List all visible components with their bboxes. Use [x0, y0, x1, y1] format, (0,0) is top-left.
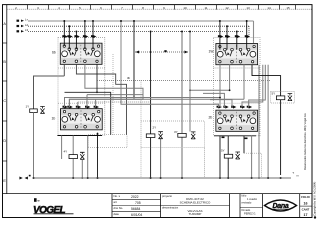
svg-text:revisado: revisado	[242, 200, 252, 204]
wire tag below K4 a	[222, 137, 225, 139]
mesh h10 dotted	[78, 101, 151, 103]
svg-text:1 cuadro: 1 cuadro	[247, 197, 258, 201]
connector pins above K4	[217, 105, 253, 108]
long wire from L1 at x140	[133, 21, 135, 98]
title block	[3, 194, 313, 218]
svg-text:A: A	[3, 22, 6, 26]
wire K3 t3 down to bus	[87, 136, 89, 179]
mesh h5 dark to bottom bus	[65, 92, 111, 134]
relay block K3 (mid-left)	[61, 109, 103, 130]
svg-text:E: E	[3, 179, 6, 183]
svg-text:TURUMP: TURUMP	[189, 212, 202, 216]
wire K2 t2 down	[229, 65, 231, 91]
stub to K3 row	[95, 99, 97, 107]
relay block K2 (top-right)	[216, 44, 258, 65]
wire K1 t3 route	[69, 64, 143, 107]
wire K4 t2 down through valve Y4	[227, 136, 229, 178]
svg-text:12: 12	[225, 6, 229, 10]
right side gray riser a	[242, 65, 263, 107]
svg-text:date: date	[114, 212, 120, 216]
wire K2 t3 down	[243, 65, 245, 100]
valve Y3 coil	[178, 133, 186, 137]
svg-text:56684: 56684	[131, 207, 141, 211]
valve Y2 symbol	[158, 132, 163, 139]
mesh h7 long gray	[65, 98, 221, 108]
svg-text:2Y: 2Y	[153, 126, 157, 130]
valve Y1 coil	[30, 109, 38, 113]
svg-text:SCHEMA ELECTRICO: SCHEMA ELECTRICO	[180, 201, 211, 205]
bus L1 (+24V)	[28, 20, 254, 22]
title block project field	[162, 194, 211, 216]
relay block K1 (top-left)	[60, 43, 102, 64]
feed wire K1 pin3 from L3	[75, 32, 77, 50]
left band row ticks	[3, 43, 7, 161]
svg-text:2b: 2b	[209, 116, 213, 120]
feed wire K1 pin4 from L1	[84, 21, 86, 49]
feed wire K2 pin2 from L2	[226, 26, 228, 49]
svg-text:FOLIO: FOLIO	[301, 195, 310, 199]
logo Dana lens	[265, 200, 297, 211]
short feeds to K4 row	[203, 93, 224, 107]
title block approval fields	[242, 194, 258, 216]
dotted corner near Y4	[244, 153, 262, 178]
svg-text:5Y: 5Y	[272, 92, 276, 96]
svg-text:firmado: firmado	[242, 208, 251, 212]
bottom return bus	[34, 177, 292, 179]
top ruler ticks	[28, 5, 296, 10]
folio number cell	[301, 195, 310, 217]
svg-text:m: m	[297, 175, 299, 178]
svg-text:Copyright by W.V. AG (2004): Copyright by W.V. AG (2004)	[312, 182, 316, 216]
bus L1 label	[17, 18, 29, 22]
wire tag below K4 b	[245, 138, 248, 140]
bus L2 end turn down	[248, 26, 250, 36]
svg-text:14: 14	[267, 6, 271, 10]
svg-text:B: B	[3, 60, 6, 64]
svg-text:1b: 1b	[52, 117, 56, 121]
mesh h6b	[87, 94, 143, 96]
svg-text:4Y: 4Y	[64, 150, 68, 154]
svg-text:3b: 3b	[127, 76, 131, 80]
bus L2 label	[17, 23, 29, 27]
bottom bus label wp	[19, 177, 22, 180]
mesh h9	[69, 99, 244, 107]
dotted enclosure around K1	[58, 38, 105, 136]
feed wire K1 pin2 from L2	[68, 26, 70, 49]
wire K1 t2 route	[76, 64, 126, 134]
wire K3 t2 down through valve Y6	[72, 136, 74, 179]
wire K1 t1 down to mesh	[63, 64, 65, 76]
dotted drop from enclosure	[203, 148, 205, 178]
wire K4 t1 dark down to bus	[219, 136, 221, 178]
junction dots on bottom bus	[33, 177, 282, 179]
svg-text:drw No.: drw No.	[114, 206, 124, 210]
feed wire K2 pin1 from L1	[219, 21, 221, 50]
mesh h8 to valve Y3	[190, 89, 230, 91]
logo VOGEL	[33, 198, 74, 216]
svg-text:705: 705	[135, 201, 141, 205]
dashed module outline below K3	[88, 135, 127, 148]
inner frame left band line	[6, 5, 8, 194]
dotted enclosure around Y5	[271, 92, 295, 104]
dotted enclosure around Y2 Y3	[141, 121, 204, 148]
svg-text:5Y: 5Y	[221, 149, 225, 153]
bus L1 end turn down	[253, 21, 255, 43]
svg-text:6/01/04: 6/01/04	[131, 213, 142, 217]
bar under K4	[214, 135, 256, 137]
svg-text:6b: 6b	[52, 51, 56, 55]
valve Y5 coil	[276, 96, 284, 100]
dotted enclosure around K4	[214, 102, 260, 104]
wire K3 t1 down to bus	[61, 136, 63, 160]
svg-text:Reservados todos los derechos.: Reservados todos los derechos. Willy Vog…	[303, 113, 307, 170]
right side gray riser c to bottom bus	[267, 65, 269, 178]
valve Y6 coil	[69, 155, 77, 159]
valve Y2 coil	[146, 134, 155, 138]
relay block K4 (mid-right)	[216, 110, 258, 131]
svg-text:PEREZ G.: PEREZ G.	[244, 212, 256, 216]
bus L2 (dotted)	[28, 25, 249, 27]
wire K1 t4 dark down	[96, 64, 98, 92]
valve Y4 symbol	[235, 152, 240, 159]
right side gray riser d to bottom bus	[258, 65, 260, 178]
wire K4 t3 gray down to bus	[251, 136, 253, 178]
wire K2 t1 down long to K4 row	[219, 65, 221, 107]
svg-text:2022: 2022	[131, 195, 139, 199]
bus L3 (dotted)	[28, 31, 243, 33]
dotted branch at y52	[135, 51, 189, 53]
mesh h1 to valve Y1	[34, 76, 65, 109]
svg-text:D: D	[3, 139, 6, 143]
wire K3 t4 dark down to bus	[97, 133, 99, 178]
svg-text:proyecto: proyecto	[162, 194, 173, 198]
svg-text:11: 11	[204, 6, 207, 10]
long wire from L3 at x150 to valve Y2	[150, 32, 152, 179]
svg-text:No. s: No. s	[114, 194, 121, 198]
feed wire K1 pin5 from L1	[92, 21, 94, 49]
svg-text:13: 13	[246, 6, 250, 10]
feed wire K1 pin1 from L1	[63, 21, 65, 46]
svg-text:denominacion: denominacion	[162, 206, 179, 210]
top ruler dotted bottom line	[7, 8, 312, 10]
feed wire K2 pin4 from L1	[246, 21, 248, 50]
svg-text:16: 16	[304, 202, 308, 206]
wire K2 t4 to valve Y5	[252, 65, 281, 175]
svg-text:17: 17	[304, 213, 308, 217]
svg-text:1Y: 1Y	[26, 105, 30, 109]
svg-text:CANT: CANT	[302, 208, 310, 212]
valve Y4 coil	[224, 154, 232, 158]
wire below K4 to corner	[243, 136, 245, 153]
top ruler column numbers	[15, 6, 290, 10]
junction dots on buses	[63, 20, 247, 98]
valve Y1 symbol	[40, 107, 45, 114]
connector pins above K3	[63, 105, 100, 108]
wire from L3 to valve Y3 coil	[181, 32, 183, 179]
dotted enclosure around K2	[214, 38, 261, 136]
dotted enclosure around K3	[58, 102, 105, 104]
svg-text:C: C	[3, 99, 6, 103]
valve Y5 symbol	[288, 94, 293, 101]
svg-text:10: 10	[183, 6, 187, 10]
svg-text:15: 15	[286, 6, 290, 10]
jog from bus wire 121 to K4 row	[121, 86, 219, 108]
title block left fields	[114, 194, 143, 217]
bar under K3	[57, 135, 102, 137]
svg-text:art: art	[114, 200, 117, 204]
left band row letters	[3, 22, 6, 183]
long wire from L1 at x125	[120, 21, 122, 86]
valve Y3 symbol	[191, 132, 196, 139]
bus L3 label	[17, 28, 29, 32]
connector pins above K1	[62, 35, 96, 38]
wire from valve Y2 down to bus	[160, 139, 162, 178]
interconnect dotted line	[97, 79, 271, 81]
valve Y1 wire to bottom bus	[33, 113, 35, 179]
right side gray riser b	[249, 65, 266, 107]
valve Y6 symbol	[80, 152, 85, 159]
feed wire K2 pin3 from L3	[236, 32, 238, 50]
svg-text:3Y: 3Y	[174, 130, 178, 134]
connector pins above K2	[218, 35, 250, 38]
